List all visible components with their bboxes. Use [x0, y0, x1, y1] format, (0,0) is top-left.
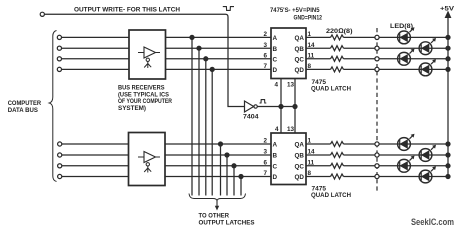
node bus line 8 terminal — [58, 174, 62, 178]
pin C label U4 — [273, 56, 278, 63]
wire R5 to connector — [344, 143, 375, 145]
svg-text:QA: QA — [295, 35, 305, 42]
wire tap C vertical — [205, 59, 207, 196]
svg-text:D: D — [273, 67, 278, 74]
node bus line 7 terminal — [58, 164, 62, 168]
label 7475 QUAD LATCH lower — [311, 186, 351, 200]
svg-text:QD: QD — [295, 174, 305, 181]
wire bus line 3 — [62, 58, 129, 60]
wire latch2 QA out — [306, 143, 331, 145]
wire enable pin4 latch1 — [280, 79, 282, 107]
svg-text:OUTPUT WRITE- FOR THIS LATCH: OUTPUT WRITE- FOR THIS LATCH — [74, 7, 180, 14]
node OUTPUT WRITE terminal — [40, 12, 44, 16]
wire connector2 to rail — [379, 47, 448, 49]
pin 8 label U5 — [308, 170, 312, 177]
wire bus line 7 — [62, 165, 129, 167]
wire tap D vertical — [211, 69, 213, 195]
wire U2 out A to latch2 A — [166, 143, 272, 145]
wire R2 to connector — [344, 47, 375, 49]
junction dot rail 7 — [446, 164, 450, 168]
pin 2 label U5 — [264, 138, 268, 145]
wire bus line 8 — [62, 176, 129, 178]
wire R6 to connector — [344, 154, 375, 156]
pin 13 label U4 — [287, 82, 295, 89]
wire R1 to connector — [344, 36, 375, 38]
wire latch1 QA out — [306, 36, 331, 38]
junction dot tap C — [204, 57, 208, 61]
pin A label U5 — [273, 142, 278, 149]
connector node 3 — [375, 57, 379, 61]
svg-text:6: 6 — [264, 159, 268, 166]
svg-text:QC: QC — [295, 56, 305, 63]
wire U1 out D to latch1 D — [166, 68, 272, 70]
junction dot rail 3 — [446, 57, 450, 61]
wire bus line 4 — [62, 68, 129, 70]
svg-text:B: B — [273, 46, 278, 53]
resistor R8 — [331, 174, 344, 179]
resistor R2 — [331, 46, 344, 51]
label OUTPUT WRITE — [74, 7, 180, 14]
wire R7 to connector — [344, 165, 375, 167]
wire tap G vertical — [233, 166, 235, 196]
svg-text:13: 13 — [287, 82, 295, 89]
LED D6 — [419, 145, 436, 162]
wire tap F vertical — [226, 155, 228, 196]
latch U4 7475 box — [271, 28, 306, 79]
svg-text:C: C — [273, 163, 278, 170]
svg-text:LED(8): LED(8) — [390, 23, 413, 30]
pin QB label U4 — [295, 46, 305, 53]
pin 11 label U4 — [308, 52, 315, 59]
svg-text:QB: QB — [295, 46, 305, 53]
wire latch2 QC out — [306, 165, 331, 167]
junction dot tap F — [225, 153, 229, 157]
wire latch1 QC out — [306, 58, 331, 60]
pin 7 label U5 — [264, 170, 268, 177]
junction dot tap H — [239, 175, 243, 179]
symbol negative pulse — [223, 7, 234, 11]
junction dot rail 5 — [446, 142, 450, 146]
resistor R1 — [331, 35, 344, 40]
junction dot rail 2 — [446, 46, 450, 50]
connector node 6 — [375, 153, 379, 157]
label 7404 — [243, 114, 259, 121]
wire connector3 to rail — [379, 58, 448, 60]
node bus line 1 terminal — [57, 35, 61, 39]
enable bubble U1 — [146, 58, 149, 61]
wire connector8 to rail — [379, 176, 448, 178]
LED D2 — [419, 38, 436, 55]
bus receiver U2 box — [129, 133, 166, 186]
wire bus line 5 — [62, 143, 129, 145]
wire tap E vertical — [220, 144, 222, 196]
wire +5V rail — [447, 18, 449, 177]
power +5V arrow — [445, 12, 451, 18]
wire tap B vertical — [198, 48, 200, 195]
bubble U3 output — [254, 105, 257, 108]
svg-text:6: 6 — [264, 52, 268, 59]
latch U5 7475 box — [271, 133, 306, 185]
junction dot tap B — [197, 46, 201, 50]
junction dot tap D — [210, 67, 214, 71]
junction dot rail 4 — [446, 67, 450, 71]
pin QA label U5 — [295, 142, 305, 149]
svg-text:13: 13 — [287, 126, 295, 133]
pin 3 label U5 — [264, 149, 268, 156]
junction dot tap E — [219, 142, 223, 146]
ground symbol U2 — [144, 166, 151, 173]
brace computer data bus — [49, 31, 56, 182]
wire U1 out A to latch1 A — [166, 36, 272, 38]
wire U1 out B to latch1 B — [166, 47, 272, 49]
connector node 7 — [375, 164, 379, 168]
pin 14 label U5 — [308, 149, 316, 156]
svg-text:2: 2 — [264, 138, 268, 145]
svg-text:TO OTHER: TO OTHER — [199, 213, 230, 220]
wire U2 out C to latch2 C — [166, 165, 272, 167]
bracket to other latches — [189, 194, 246, 202]
svg-text:220Ω(8): 220Ω(8) — [326, 28, 353, 35]
svg-text:QC: QC — [295, 163, 305, 170]
pin 13 label U5 — [287, 126, 295, 133]
wire R3 to connector — [344, 58, 375, 60]
junction dot tap G — [232, 164, 236, 168]
wire connector7 to rail — [379, 165, 448, 167]
pin 6 label U4 — [264, 52, 268, 59]
node bus line 3 terminal — [57, 57, 61, 61]
junction dot rail 6 — [446, 153, 450, 157]
symbol positive pulse — [260, 100, 267, 103]
pin QA label U4 — [295, 35, 305, 42]
LED D4 — [419, 59, 436, 76]
wire latch1 QD out — [306, 68, 331, 70]
wire enable pin13 latch2 — [294, 107, 296, 134]
svg-text:7: 7 — [264, 63, 268, 70]
svg-text:2: 2 — [264, 31, 268, 38]
pin D label U5 — [273, 174, 278, 181]
resistor R6 — [331, 153, 344, 158]
connector node 2 — [375, 46, 379, 50]
node bus line 6 terminal — [58, 153, 62, 157]
resistor R4 — [331, 67, 344, 72]
LED D8 — [419, 166, 436, 183]
svg-text:B: B — [273, 153, 278, 160]
enable bubble U2 — [146, 163, 149, 166]
label TO OTHER OUTPUT LATCHES — [199, 213, 255, 227]
svg-text:OUTPUT LATCHES: OUTPUT LATCHES — [199, 220, 255, 227]
node bus line 2 terminal — [57, 46, 61, 50]
connector node 8 — [375, 174, 379, 178]
pin 8 label U4 — [308, 63, 312, 70]
junction dot rail 1 — [446, 35, 450, 39]
wire bus line 1 — [62, 36, 129, 38]
pin 1 label U5 — [308, 138, 312, 145]
svg-text:4: 4 — [275, 126, 279, 133]
svg-text:A: A — [273, 35, 278, 42]
pin QC label U5 — [295, 163, 305, 170]
connector node 4 — [375, 67, 379, 71]
junction dot enable left — [279, 105, 283, 109]
svg-text:QUAD LATCH: QUAD LATCH — [311, 192, 351, 199]
svg-text:QUAD LATCH: QUAD LATCH — [311, 85, 351, 92]
pin 1 label U4 — [308, 31, 312, 38]
node bus line 4 terminal — [57, 67, 61, 71]
pin 7 label U4 — [264, 63, 268, 70]
svg-text:QA: QA — [295, 142, 305, 149]
svg-text:A: A — [273, 142, 278, 149]
wire latch2 QB out — [306, 154, 331, 156]
label 220 ohm (8) — [326, 28, 353, 35]
wire latch2 QD out — [306, 176, 331, 178]
svg-text:DATA BUS: DATA BUS — [8, 107, 39, 114]
junction dot rail 8 — [446, 175, 450, 179]
svg-text:3: 3 — [264, 42, 268, 49]
wire connector1 to rail — [379, 36, 448, 38]
connector node 5 — [375, 142, 379, 146]
pin D label U4 — [273, 67, 278, 74]
LED D1 — [398, 27, 415, 44]
wire R8 to connector — [344, 176, 375, 178]
resistor R7 — [331, 163, 344, 168]
resistor R5 — [331, 142, 344, 147]
svg-text:D: D — [273, 174, 278, 181]
pin A label U4 — [273, 35, 278, 42]
bus receiver U1 box — [129, 30, 166, 79]
pin 2 label U4 — [264, 31, 268, 38]
svg-text:C: C — [273, 56, 278, 63]
wire latch1 QB out — [306, 47, 331, 49]
svg-text:SeekIC.com: SeekIC.com — [411, 217, 454, 227]
svg-text:7: 7 — [264, 170, 268, 177]
node bus line 5 terminal — [58, 142, 62, 146]
wire R4 to connector — [344, 68, 375, 70]
junction dot enable right — [293, 105, 297, 109]
wire U3 output to latch enables — [257, 106, 295, 108]
svg-text:+5V: +5V — [440, 6, 455, 13]
arrow to other latches — [216, 201, 218, 207]
wire bus line 6 — [62, 154, 129, 156]
pin C label U5 — [273, 163, 278, 170]
wire bus line 2 — [62, 47, 129, 49]
wire OUTPUT WRITE vertical to 7404 — [228, 17, 245, 107]
label BUS RECEIVERS — [118, 85, 172, 112]
pin QD label U4 — [295, 67, 305, 74]
wire tap A vertical — [191, 37, 193, 195]
wire OUTPUT WRITE horizontal — [45, 14, 229, 17]
wire U1 out C to latch1 C — [166, 58, 272, 60]
power +5V label — [440, 6, 455, 13]
label 7475 header — [270, 7, 322, 22]
pin 14 label U4 — [308, 42, 316, 49]
junction dot tap A — [190, 35, 194, 39]
dashed separator line — [376, 28, 378, 193]
pin 4 label U5 — [275, 126, 279, 133]
pin QD label U5 — [295, 174, 305, 181]
svg-text:QB: QB — [295, 153, 305, 160]
wire tap H vertical — [240, 177, 242, 196]
resistor R3 — [331, 56, 344, 61]
pin 6 label U5 — [264, 159, 268, 166]
svg-text:SYSTEM): SYSTEM) — [118, 105, 146, 112]
wire connector4 to rail — [379, 68, 448, 70]
wire enable pin4 latch2 — [280, 107, 282, 134]
LED D3 — [398, 49, 415, 66]
pin B label U5 — [273, 153, 278, 160]
ground symbol U1 — [144, 62, 151, 69]
pin 11 label U5 — [308, 159, 315, 166]
LED D7 — [398, 156, 415, 173]
svg-text:COMPUTER: COMPUTER — [8, 100, 41, 107]
pin B label U4 — [273, 46, 278, 53]
svg-text:7475'S- +5V=PIN5: 7475'S- +5V=PIN5 — [270, 7, 320, 14]
connector node 1 — [375, 35, 379, 39]
pin 4 label U4 — [275, 82, 279, 89]
buffer symbol inside U1 — [138, 47, 160, 58]
svg-text:QD: QD — [295, 67, 305, 74]
wire connector5 to rail — [379, 143, 448, 145]
svg-text:GND=PIN12: GND=PIN12 — [294, 15, 323, 22]
wire U2 out D to latch2 D — [166, 176, 272, 178]
label COMPUTER DATA BUS — [8, 100, 41, 114]
pin QC label U4 — [295, 56, 305, 63]
label 7475 QUAD LATCH upper — [311, 79, 351, 92]
svg-text:4: 4 — [275, 82, 279, 89]
pin QB label U5 — [295, 153, 305, 160]
pin 3 label U4 — [264, 42, 268, 49]
wire U2 out B to latch2 B — [166, 154, 272, 156]
inverter U3 7404 — [245, 101, 254, 112]
svg-text:3: 3 — [264, 149, 268, 156]
wire enable pin13 latch1 — [294, 79, 296, 107]
wire connector6 to rail — [379, 154, 448, 156]
svg-text:7404: 7404 — [243, 114, 259, 121]
buffer symbol inside U2 — [138, 152, 160, 163]
label LED(8) — [390, 23, 413, 30]
LED D5 — [398, 134, 415, 151]
